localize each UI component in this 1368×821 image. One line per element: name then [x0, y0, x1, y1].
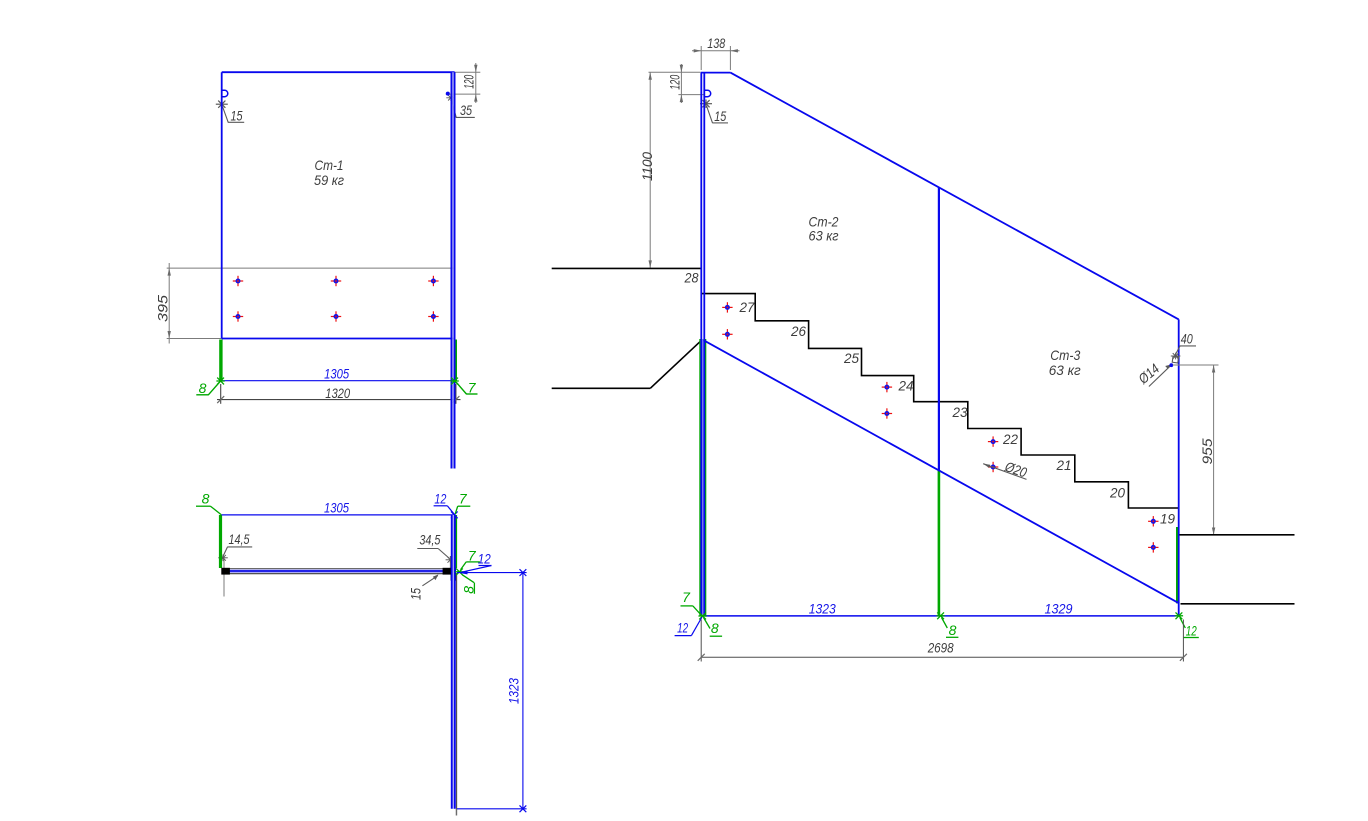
dim 120 extension bottom: [446, 93, 481, 95]
left extension thin line: [223, 556, 225, 597]
green weld middle column: [938, 470, 941, 616]
svg-text:1305: 1305: [324, 499, 349, 515]
leader O14: [1149, 364, 1172, 386]
right column double blue line: [451, 515, 453, 809]
weld asterisk 40: [1171, 353, 1181, 360]
stringer left column fill: [702, 339, 704, 616]
stringer right edge: [1178, 319, 1180, 616]
stringer left column double blue: [700, 73, 702, 616]
svg-text:59 кг: 59 кг: [314, 172, 344, 188]
weld leader 35: [452, 100, 457, 118]
svg-text:34,5: 34,5: [419, 532, 440, 548]
svg-text:395: 395: [155, 295, 171, 322]
svg-text:35: 35: [460, 102, 472, 118]
weld mark square: [1172, 356, 1178, 363]
leader 15: [707, 106, 713, 123]
svg-text:27: 27: [739, 299, 756, 315]
bar bottom dark line: [222, 573, 456, 575]
dim 1100 extension top: [649, 71, 701, 73]
svg-text:12: 12: [677, 620, 688, 636]
green weld right edge: [1176, 527, 1178, 603]
bar top grey line: [222, 568, 456, 570]
green weld line right: [454, 340, 457, 382]
weld hook: [705, 90, 711, 96]
dim 1323 line: [522, 573, 524, 809]
bar end blob left: [221, 568, 230, 575]
stringer bottom slant: [704, 340, 1180, 603]
svg-text:138: 138: [707, 35, 725, 51]
weld asterisk 15: [700, 100, 712, 108]
svg-text:7: 7: [682, 589, 691, 605]
bottom dim line blue: [702, 615, 1180, 617]
svg-text:120: 120: [667, 75, 683, 90]
svg-text:1320: 1320: [325, 385, 350, 401]
svg-text:15: 15: [231, 107, 243, 123]
svg-text:63 кг: 63 кг: [1049, 362, 1081, 378]
dim 395 extension line top: [167, 267, 455, 269]
svg-text:25: 25: [843, 350, 859, 366]
svg-text:8: 8: [949, 622, 957, 638]
leader 34,5: [417, 548, 438, 550]
floor line lower left: [552, 387, 651, 389]
bolt holes: [233, 276, 243, 286]
dim 1100 line: [649, 72, 651, 268]
svg-text:Ø14: Ø14: [1135, 360, 1163, 387]
weld leader 15: [223, 107, 229, 123]
dim 138 extensions: [700, 46, 702, 70]
svg-text:7: 7: [459, 490, 468, 506]
dim 395 line: [168, 263, 170, 344]
svg-text:24: 24: [898, 378, 914, 394]
svg-text:15: 15: [408, 588, 424, 600]
svg-text:28: 28: [684, 270, 699, 286]
svg-text:7: 7: [468, 547, 477, 563]
dim 955 extension top: [1173, 364, 1219, 366]
bar end blob right: [443, 568, 456, 575]
svg-text:23: 23: [952, 404, 968, 420]
leader 14,5: [223, 547, 227, 556]
svg-text:26: 26: [790, 323, 806, 339]
dim 2698 extensions: [700, 620, 702, 662]
svg-text:63 кг: 63 кг: [809, 227, 839, 243]
svg-text:8: 8: [202, 490, 210, 506]
dim 120 extension top: [451, 71, 480, 73]
plate Ct-1 outline: [221, 72, 223, 338]
svg-text:1100: 1100: [639, 152, 655, 181]
green star middle: [936, 612, 944, 619]
dim 955 extension bottom: [1181, 534, 1219, 536]
svg-text:12: 12: [478, 550, 491, 566]
floor line top left: [552, 267, 701, 269]
svg-text:Ст-1: Ст-1: [315, 157, 344, 173]
dim 1323 top extension: [457, 572, 527, 574]
svg-text:19: 19: [1160, 511, 1175, 527]
dim 1305 line: [222, 514, 455, 516]
green weld line left top: [219, 515, 222, 568]
svg-text:22: 22: [1002, 431, 1018, 447]
right flange fill: [452, 72, 454, 468]
green weld line right top: [455, 515, 457, 568]
arrow mark 34,5: [446, 556, 456, 563]
svg-text:955: 955: [1199, 438, 1215, 464]
svg-text:15: 15: [714, 108, 726, 124]
dim 120 line: [680, 64, 682, 103]
green weld left column: [699, 339, 706, 616]
svg-text:1305: 1305: [324, 366, 349, 382]
svg-text:12: 12: [434, 490, 446, 506]
dim 120 line: [475, 63, 477, 103]
dim 1305 line: [222, 380, 455, 382]
svg-text:20: 20: [1109, 484, 1125, 500]
dim 138 line: [692, 50, 740, 52]
svg-text:2698: 2698: [927, 639, 954, 655]
svg-text:7: 7: [468, 379, 477, 395]
dim 955 line: [1213, 365, 1215, 535]
weld asterisk left: [216, 100, 228, 108]
right flange double line: [450, 72, 452, 468]
floor line right lower: [1181, 603, 1295, 605]
green weld star at bar corner: [455, 568, 463, 575]
green star left corner: [698, 613, 706, 620]
bar blue body: [222, 570, 456, 573]
svg-text:12: 12: [1186, 622, 1197, 638]
stringer top slant: [730, 73, 1178, 320]
weld asterisk right: [446, 95, 455, 101]
svg-text:8: 8: [711, 620, 719, 636]
floor break slant: [650, 340, 702, 389]
svg-text:8: 8: [199, 380, 207, 396]
svg-text:1323: 1323: [809, 600, 836, 616]
dim 1320 line: [217, 399, 461, 401]
svg-text:40: 40: [1181, 330, 1193, 346]
svg-text:Ст-3: Ст-3: [1050, 347, 1080, 363]
bottom extension grey: [455, 809, 457, 816]
right column grey edge: [456, 573, 458, 816]
dim 395 extension line bottom: [167, 338, 222, 340]
stringer top edge: [701, 72, 731, 74]
right column fill: [453, 515, 455, 809]
svg-text:1323: 1323: [506, 678, 522, 704]
floor line right upper: [1180, 534, 1295, 536]
arrow mark 14,5: [218, 554, 228, 561]
weld dot right: [446, 92, 450, 96]
steps polyline: [701, 294, 1179, 508]
dim 1320 extension lines: [220, 384, 222, 404]
svg-text:Ø20: Ø20: [1002, 458, 1029, 481]
middle stiffener blue: [938, 187, 940, 470]
bolt holes: [722, 302, 732, 312]
dim 120 extension bottom: [678, 94, 704, 96]
svg-text:21: 21: [1056, 457, 1072, 473]
leader 40: [1175, 346, 1180, 356]
svg-text:1329: 1329: [1045, 600, 1073, 616]
dim 1323 bottom extension: [457, 808, 527, 810]
svg-text:120: 120: [461, 75, 477, 89]
leader 15 vertical: [422, 576, 438, 586]
svg-text:14,5: 14,5: [229, 531, 250, 547]
green star right corner: [1175, 612, 1183, 619]
green weld line left: [219, 340, 222, 382]
weld hook left: [222, 90, 228, 96]
dim 2698 line: [701, 656, 1183, 658]
leader O20: [983, 464, 1026, 480]
